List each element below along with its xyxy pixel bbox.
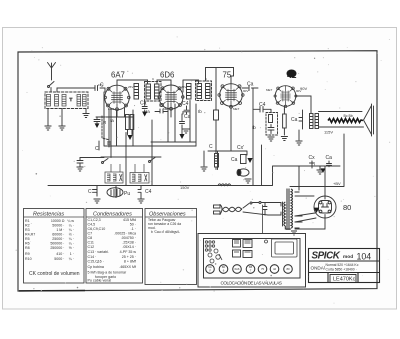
svg-text:mod: mod [343,254,353,260]
svg-text:6A6: 6A6 [235,267,240,271]
svg-text:6A7: 6A7 [111,71,125,80]
svg-text:½ ·: ½ · [69,246,74,250]
svg-text:C4: C4 [145,189,152,195]
svg-text:.1 ·: .1 · [131,227,136,231]
svg-text:R4,R7: R4,R7 [25,233,35,237]
svg-text:R10: R10 [25,257,32,261]
svg-text:MET: MET [108,107,115,111]
svg-text:Cx: Cx [309,155,316,161]
svg-text:R8: R8 [25,246,30,250]
svg-text:Ca: Ca [247,82,254,88]
svg-text:Ca: Ca [291,117,298,123]
svg-text:C13 · variabl.: C13 · variabl. [88,250,109,254]
svg-text:R9: R9 [25,252,30,256]
svg-text:Cp bobina: Cp bobina [88,265,104,269]
svg-text:25000 ·: 25000 · [52,237,64,241]
svg-text:Ia: Ia [110,118,114,123]
svg-text:115V: 115V [324,130,333,135]
svg-text:C7: C7 [88,232,93,236]
svg-text:C4: C4 [259,102,266,108]
svg-text:Corta 5850 +18400 ·: Corta 5850 +18400 · [326,268,357,272]
svg-text:ONDA/: ONDA/ [311,266,326,271]
svg-text:Ib: Ib [198,109,202,114]
svg-text:50 ·: 50 · [130,223,136,227]
svg-text:Ia: Ia [146,109,150,114]
svg-text:6D6: 6D6 [160,71,174,80]
svg-text:LE470Kc.: LE470Kc. [333,277,357,283]
svg-text:MET: MET [266,88,273,92]
svg-text:25V: 25V [128,85,133,89]
svg-text:90V: 90V [296,89,301,93]
svg-text:C12: C12 [88,245,95,249]
svg-text:C: C [209,144,213,150]
svg-text:¼ w: ¼ w [67,219,74,223]
svg-text:C8: C8 [88,236,93,240]
svg-text:Ca: Ca [326,155,333,161]
svg-text:C4,5: C4,5 [88,223,96,227]
svg-text:R6: R6 [25,242,30,246]
svg-text:80: 80 [343,203,351,212]
svg-text:10000 Ω: 10000 Ω [51,219,65,223]
svg-text:.465XX Mf: .465XX Mf [119,265,136,269]
svg-text:Condensadores: Condensadores [93,212,132,218]
svg-text:4-PF 35 w: 4-PF 35 w [120,250,137,254]
svg-text:Resistencias: Resistencias [33,212,64,218]
svg-text:+BV: +BV [333,181,341,186]
svg-text:R1: R1 [25,219,30,223]
svg-text:1 ·: 1 · [70,252,74,256]
svg-text:15V: 15V [98,83,103,87]
svg-text:C1,C2,3: C1,C2,3 [88,218,101,222]
svg-text:CK control de volumen: CK control de volumen [29,271,80,277]
svg-text:75: 75 [261,267,265,271]
svg-text:Ca: Ca [140,101,147,107]
svg-text:C14 ·: C14 · [88,255,97,259]
svg-text:75: 75 [223,71,232,80]
svg-text:C6,C9,C10: C6,C9,C10 [88,227,106,231]
svg-text:80: 80 [286,267,290,271]
svg-text:.05X14 ·: .05X14 · [122,245,136,249]
svg-text:b 'Cau d' d8/dbgv/L: b 'Cau d' d8/dbgv/L [151,230,180,234]
svg-text:Cx': Cx' [237,145,244,151]
svg-text:¼ ·: ¼ · [69,228,74,232]
svg-text:1 M ·: 1 M · [56,228,64,232]
svg-text:104: 104 [357,252,372,262]
svg-text:C15,C16 ·: C15,C16 · [88,260,104,264]
svg-text:60000 ·: 60000 · [52,233,64,237]
svg-text:Ca: Ca [231,157,238,163]
svg-text:C4: C4 [182,101,189,107]
svg-text:8 + 8Mf: 8 + 8Mf [124,260,136,264]
svg-text:C11: C11 [88,241,94,245]
svg-text:½ ·: ½ · [69,233,74,237]
svg-text:¼ ·: ¼ · [69,257,74,261]
svg-text:.004750 ·: .004750 · [121,236,136,240]
svg-text:¼ ·: ¼ · [69,242,74,246]
svg-text:150V: 150V [180,185,190,190]
svg-text:.00025 · Mica: .00025 · Mica [114,232,136,236]
svg-text:Ib: Ib [252,125,256,130]
svg-text:25V: 25V [181,85,186,89]
svg-text:Ca: Ca [184,114,191,120]
svg-text:50000 ·: 50000 · [52,224,64,228]
svg-text:90V: 90V [243,89,248,93]
svg-text:SPICK: SPICK [312,251,341,262]
svg-text:25 + 25 ·: 25 + 25 · [122,255,136,259]
svg-text:R5: R5 [25,237,30,241]
svg-text:C: C [88,189,92,195]
svg-text:¼ ·: ¼ · [69,224,74,228]
svg-text:Pu: Pu [124,191,130,197]
svg-text:R2: R2 [25,224,30,228]
svg-text:Pu cable venal: Pu cable venal [88,279,112,283]
svg-text:500000 ·: 500000 · [50,242,64,246]
svg-text:Bc Bb: Bc Bb [344,114,353,118]
svg-text:250000 ·: 250000 · [50,246,64,250]
svg-text:5000 ·: 5000 · [54,257,64,261]
svg-text:C: C [95,146,99,152]
svg-text:5 M/h Bag-a de tonomar: 5 M/h Bag-a de tonomar [88,271,128,275]
svg-text:¼ ·: ¼ · [69,237,74,241]
svg-text:MET: MET [233,107,240,111]
svg-text:415 Mfd: 415 Mfd [123,218,136,222]
svg-text:Normal 520 +1644 Kc: Normal 520 +1644 Kc [326,263,359,267]
svg-text:410 ·: 410 · [56,252,64,256]
svg-text:R3: R3 [25,228,30,232]
svg-text:42: 42 [273,267,277,271]
svg-text:.25X38 ·: .25X38 · [122,241,136,245]
svg-text:T: T [70,97,73,102]
svg-text:COLOCACIÓN DE LAS VÁLVULAS: COLOCACIÓN DE LAS VÁLVULAS [221,280,283,286]
svg-text:Observaciones: Observaciones [149,212,186,218]
svg-text:MET: MET [163,107,170,111]
